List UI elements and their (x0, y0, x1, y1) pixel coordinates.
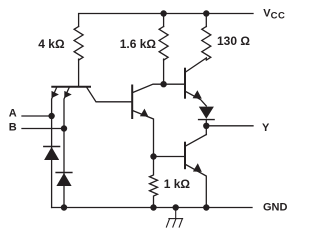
wire GND rail (52, 207, 252, 209)
transistor Q3 emitter arrow (193, 90, 202, 98)
transistor Q1 emitter 1 (52, 88, 57, 208)
node Q4 emitter GND (203, 204, 209, 210)
transistor Q3 collector (186, 58, 207, 72)
transistor Q2 base bar (131, 86, 133, 119)
resistor R2 1.6 kOhm (159, 27, 168, 61)
node B (61, 125, 67, 131)
svg-text:CC: CC (271, 10, 286, 21)
diode D2 triangle (56, 173, 71, 186)
diode D3 triangle (199, 107, 214, 119)
ground symbol (166, 208, 182, 228)
diode D1 triangle (44, 147, 59, 160)
node Q2 emitter junction (150, 153, 156, 159)
diode D2 cathode bar (56, 172, 72, 174)
svg-text:GND: GND (263, 202, 288, 214)
input A wire (22, 115, 52, 117)
resistor R1 4 kOhm (74, 27, 83, 61)
wire node C2 to Q3 base (164, 83, 184, 85)
wire output to Y terminal (206, 125, 253, 127)
svg-text:A: A (9, 108, 17, 120)
diode D3 cathode bar (199, 119, 215, 121)
diode D1 cathode bar (44, 146, 60, 148)
transistor Q2 collector (133, 84, 164, 92)
svg-text:B: B (9, 122, 17, 134)
transistor Q3 base bar (184, 69, 186, 98)
wire R1 to Q1 base (78, 59, 80, 86)
resistor R4 1 kOhm (150, 157, 158, 208)
wire D3 to output node (205, 120, 207, 135)
transistor Q4 base bar (184, 143, 186, 169)
transistor Q4 emitter arrow (193, 163, 202, 172)
transistor Q4 emitter (186, 165, 207, 208)
transistor Q2 emitter (133, 111, 154, 157)
wire VCC to R2 (163, 14, 165, 27)
wire R2 to node C2 (163, 59, 165, 84)
wire Q2 emitter node to Q4 base (154, 156, 185, 158)
transistor Q3 emitter (186, 92, 207, 107)
node ground symbol junction (173, 204, 179, 210)
transistor Q1 collector wire to Q2 base (87, 88, 131, 102)
node A (48, 113, 54, 119)
node output Y (203, 123, 209, 129)
input B wire (22, 128, 64, 130)
node R3-VCC (203, 10, 209, 16)
resistor R3 130 Ohm (202, 27, 211, 61)
transistor Q1 base bar (52, 86, 90, 88)
node C2 junction (160, 81, 166, 87)
transistor Q2 emitter arrow (140, 109, 149, 117)
svg-text:1.6 kΩ: 1.6 kΩ (120, 37, 157, 51)
svg-text:1 kΩ: 1 kΩ (164, 177, 191, 191)
node B-emitter GND (61, 204, 67, 210)
node R4 GND (150, 204, 156, 210)
svg-text:4 kΩ: 4 kΩ (38, 37, 65, 51)
transistor Q1 emitter 2 (64, 88, 69, 208)
svg-text:130 Ω: 130 Ω (217, 34, 250, 48)
transistor Q4 collector (186, 135, 207, 147)
wire VCC rail (79, 14, 253, 27)
node R2-VCC (160, 10, 166, 16)
svg-text:Y: Y (262, 122, 270, 134)
transistor Q1 emitter 1 arrow (52, 91, 59, 98)
wire VCC to R3 (205, 14, 207, 27)
transistor Q1 emitter 2 arrow (64, 91, 71, 98)
